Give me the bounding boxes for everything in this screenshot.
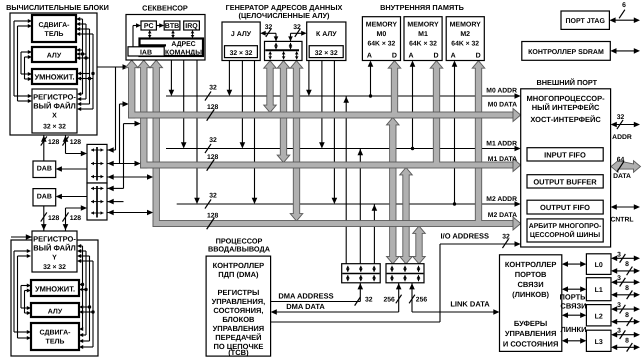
- svg-text:ВЫЙ ФАЙЛ: ВЫЙ ФАЙЛ: [33, 244, 76, 253]
- svg-text:64K × 32: 64K × 32: [368, 41, 396, 48]
- svg-text:PC: PC: [144, 23, 154, 30]
- svg-text:3: 3: [617, 328, 621, 335]
- svg-text:8: 8: [625, 261, 629, 268]
- svg-text:M0 ADDR: M0 ADDR: [486, 88, 517, 95]
- svg-text:АЛУ: АЛУ: [48, 309, 63, 316]
- svg-text:L0: L0: [595, 262, 603, 269]
- svg-text:INPUT FIFO: INPUT FIFO: [544, 151, 586, 160]
- svg-text:(ЦЕЛОЧИСЛЕННЫЕ АЛУ): (ЦЕЛОЧИСЛЕННЫЕ АЛУ): [239, 11, 330, 20]
- svg-text:УПРАВЛЕНИЯ: УПРАВЛЕНИЯ: [505, 329, 557, 338]
- svg-text:ВВОДА/ВЫВОДА: ВВОДА/ВЫВОДА: [208, 245, 271, 254]
- svg-text:32: 32: [502, 234, 510, 241]
- svg-text:DMA ADDRESS: DMA ADDRESS: [278, 292, 333, 301]
- svg-text:A: A: [408, 53, 413, 60]
- svg-text:128: 128: [48, 215, 60, 222]
- svg-text:ТЕЛЬ: ТЕЛЬ: [45, 31, 64, 38]
- svg-text:ПОРТОВ: ПОРТОВ: [515, 270, 547, 279]
- svg-text:DMA DATA: DMA DATA: [286, 302, 325, 311]
- svg-text:32: 32: [209, 85, 217, 92]
- svg-text:32: 32: [209, 137, 217, 144]
- svg-text:ХОСТ-ИНТЕРФЕЙС: ХОСТ-ИНТЕРФЕЙС: [530, 115, 601, 124]
- svg-text:РЕГИСТРО-: РЕГИСТРО-: [33, 93, 76, 102]
- svg-text:A: A: [451, 53, 456, 60]
- svg-text:DATA: DATA: [613, 173, 631, 180]
- svg-text:J АЛУ: J АЛУ: [231, 31, 252, 38]
- svg-text:M2: M2: [460, 31, 470, 38]
- svg-text:АЛУ: АЛУ: [47, 53, 62, 60]
- svg-text:64: 64: [617, 157, 625, 164]
- svg-text:СОСТОЯНИЯ,: СОСТОЯНИЯ,: [213, 306, 263, 315]
- svg-text:A: A: [367, 53, 372, 60]
- svg-text:32: 32: [293, 24, 301, 31]
- svg-text:БУФЕРЫ: БУФЕРЫ: [514, 319, 547, 328]
- svg-text:3: 3: [617, 302, 621, 309]
- svg-text:M2 DATA: M2 DATA: [488, 212, 517, 219]
- svg-text:СВЯЗИ: СВЯЗИ: [518, 280, 544, 289]
- svg-text:КОМАНДЫ: КОМАНДЫ: [165, 49, 202, 56]
- svg-text:IAB: IAB: [140, 49, 152, 56]
- svg-text:8: 8: [625, 337, 629, 344]
- svg-text:(ЛИНКОВ): (ЛИНКОВ): [512, 290, 549, 299]
- svg-text:АРБИТР МНОГОПРО-: АРБИТР МНОГОПРО-: [529, 223, 602, 230]
- svg-text:8: 8: [625, 285, 629, 292]
- svg-text:CNTRL: CNTRL: [610, 217, 633, 224]
- svg-text:ВЫЧИСЛИТЕЛЬНЫЕ БЛОКИ: ВЫЧИСЛИТЕЛЬНЫЕ БЛОКИ: [6, 3, 109, 12]
- svg-text:I/O ADDRESS: I/O ADDRESS: [441, 232, 489, 241]
- svg-text:M1 DATA: M1 DATA: [488, 156, 517, 163]
- svg-text:M2 ADDR: M2 ADDR: [486, 196, 517, 203]
- svg-text:Y: Y: [52, 255, 57, 262]
- svg-text:32: 32: [265, 24, 273, 31]
- svg-text:BTB: BTB: [165, 23, 179, 30]
- svg-text:УМНОЖИТ.: УМНОЖИТ.: [35, 285, 75, 294]
- svg-text:8: 8: [625, 312, 629, 319]
- svg-text:32: 32: [365, 297, 373, 304]
- svg-text:3: 3: [617, 251, 621, 258]
- svg-text:32: 32: [617, 114, 625, 121]
- svg-text:MEMORY: MEMORY: [407, 22, 439, 29]
- svg-text:СВЯЗИ: СВЯЗИ: [560, 302, 586, 311]
- svg-text:32 × 32: 32 × 32: [230, 50, 253, 57]
- svg-text:MEMORY: MEMORY: [366, 22, 398, 29]
- svg-text:IRQ: IRQ: [185, 23, 198, 30]
- svg-text:ВНУТРЕННЯЯ ПАМЯТЬ: ВНУТРЕННЯЯ ПАМЯТЬ: [380, 3, 464, 12]
- svg-text:РЕГИСТРО-: РЕГИСТРО-: [33, 235, 76, 244]
- svg-text:РЕГИСТРЫ: РЕГИСТРЫ: [217, 288, 259, 297]
- svg-text:КОНТРОЛЛЕР SDRAM: КОНТРОЛЛЕР SDRAM: [528, 49, 604, 56]
- svg-text:АДРЕС: АДРЕС: [171, 41, 195, 48]
- svg-text:ВНЕШНИЙ ПОРТ: ВНЕШНИЙ ПОРТ: [536, 78, 597, 87]
- svg-text:КОНТРОЛЛЕР: КОНТРОЛЛЕР: [505, 260, 557, 269]
- svg-text:ПЕРЕДАЧЕЙ: ПЕРЕДАЧЕЙ: [215, 333, 261, 342]
- svg-text:X: X: [52, 113, 57, 120]
- svg-text:УМНОЖИТ.: УМНОЖИТ.: [34, 73, 74, 82]
- svg-text:БЛОКОВ: БЛОКОВ: [222, 315, 255, 324]
- svg-text:64K × 32: 64K × 32: [409, 41, 437, 48]
- svg-text:ЛИНКИ: ЛИНКИ: [560, 325, 586, 334]
- svg-text:32 × 32: 32 × 32: [315, 50, 338, 57]
- svg-text:128: 128: [207, 104, 219, 111]
- svg-text:DAB: DAB: [37, 194, 52, 201]
- svg-text:СДВИГА-: СДВИГА-: [39, 22, 71, 29]
- svg-text:M0 DATA: M0 DATA: [488, 102, 517, 109]
- svg-text:К АЛУ: К АЛУ: [316, 31, 337, 38]
- svg-text:LINK DATA: LINK DATA: [450, 300, 490, 309]
- svg-text:НЫЙ ИНТЕРФЕЙС: НЫЙ ИНТЕРФЕЙС: [532, 103, 600, 112]
- svg-text:L2: L2: [595, 313, 603, 320]
- svg-text:128: 128: [207, 154, 219, 161]
- svg-text:OUTPUT BUFFER: OUTPUT BUFFER: [533, 178, 597, 187]
- svg-text:ПОРТ JTAG: ПОРТ JTAG: [565, 18, 605, 25]
- svg-text:D: D: [476, 53, 481, 60]
- svg-text:MEMORY: MEMORY: [450, 22, 482, 29]
- svg-text:(TCB): (TCB): [228, 348, 249, 357]
- svg-text:256: 256: [383, 297, 395, 304]
- svg-text:КОНТРОЛЛЕР: КОНТРОЛЛЕР: [213, 261, 265, 270]
- svg-text:DAB: DAB: [37, 166, 52, 173]
- svg-text:M1: M1: [418, 31, 428, 38]
- svg-text:L1: L1: [595, 287, 603, 294]
- svg-text:M0: M0: [377, 31, 387, 38]
- svg-text:ADDR: ADDR: [612, 134, 632, 141]
- svg-text:СЕКВЕНСОР: СЕКВЕНСОР: [142, 4, 188, 13]
- svg-text:ПОРТЫ: ПОРТЫ: [559, 293, 587, 302]
- svg-text:128: 128: [70, 139, 82, 146]
- svg-text:128: 128: [70, 215, 82, 222]
- svg-text:32 × 32: 32 × 32: [43, 124, 66, 131]
- svg-text:УПРАВЛЕНИЯ,: УПРАВЛЕНИЯ,: [212, 297, 266, 306]
- svg-text:6: 6: [622, 2, 626, 9]
- svg-text:УПРАВЛЕНИЯ: УПРАВЛЕНИЯ: [213, 324, 265, 333]
- svg-text:256: 256: [416, 297, 428, 304]
- svg-text:ПДП (DMA): ПДП (DMA): [218, 270, 259, 279]
- svg-text:И СОСТОЯНИЯ: И СОСТОЯНИЯ: [503, 340, 559, 349]
- svg-text:D: D: [392, 53, 397, 60]
- svg-text:128: 128: [207, 213, 219, 220]
- svg-text:OUTPUT FIFO: OUTPUT FIFO: [540, 203, 590, 212]
- svg-text:128: 128: [48, 139, 60, 146]
- svg-text:3: 3: [617, 275, 621, 282]
- svg-text:M1 ADDR: M1 ADDR: [486, 141, 517, 148]
- svg-text:МНОГОПРОЦЕССОР-: МНОГОПРОЦЕССОР-: [527, 94, 606, 103]
- svg-text:ВЫЙ ФАЙЛ: ВЫЙ ФАЙЛ: [33, 102, 76, 111]
- svg-text:ТЕЛЬ: ТЕЛЬ: [46, 339, 65, 346]
- svg-text:64K × 32: 64K × 32: [451, 41, 479, 48]
- svg-text:32 × 32: 32 × 32: [43, 264, 66, 271]
- svg-text:32: 32: [209, 193, 217, 200]
- svg-text:СДВИГА-: СДВИГА-: [40, 330, 72, 337]
- svg-text:L3: L3: [595, 339, 603, 346]
- svg-text:D: D: [433, 53, 438, 60]
- svg-text:ЦЕССОРНОЙ ШИНЫ: ЦЕССОРНОЙ ШИНЫ: [530, 230, 600, 239]
